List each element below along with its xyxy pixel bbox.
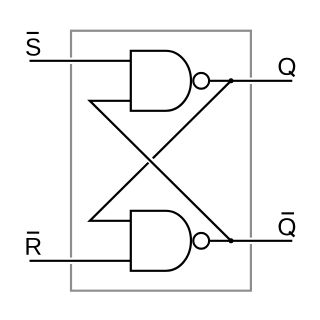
overbar of Qbar	[282, 212, 295, 214]
wire R input	[30, 260, 133, 262]
overbar of S	[27, 32, 39, 34]
wire bottom gate feedback input, diagonal lower piece	[90, 163, 149, 221]
wire S input	[30, 60, 133, 62]
label Qbar (ring)	[279, 218, 296, 235]
inversion bubble U2	[193, 233, 209, 249]
label R	[26, 238, 41, 255]
NAND gate U1 (top)	[131, 51, 191, 111]
enclosure box (edges broken where wires cross)	[70, 30, 252, 292]
overbar of R	[27, 232, 39, 234]
wire Q output	[210, 80, 293, 82]
inversion bubble U1	[193, 73, 209, 89]
wire bottom feedback diagonal upper piece to Q node	[153, 81, 231, 159]
wire Qbar output	[210, 240, 293, 242]
label Q (ring)	[279, 58, 296, 75]
junction node Q	[229, 78, 234, 83]
wire top gate feedback input and diagonal to Qbar node	[90, 101, 231, 241]
label S	[26, 38, 40, 55]
junction node Qbar	[229, 238, 234, 243]
NAND gate U2 (bottom)	[131, 211, 191, 271]
